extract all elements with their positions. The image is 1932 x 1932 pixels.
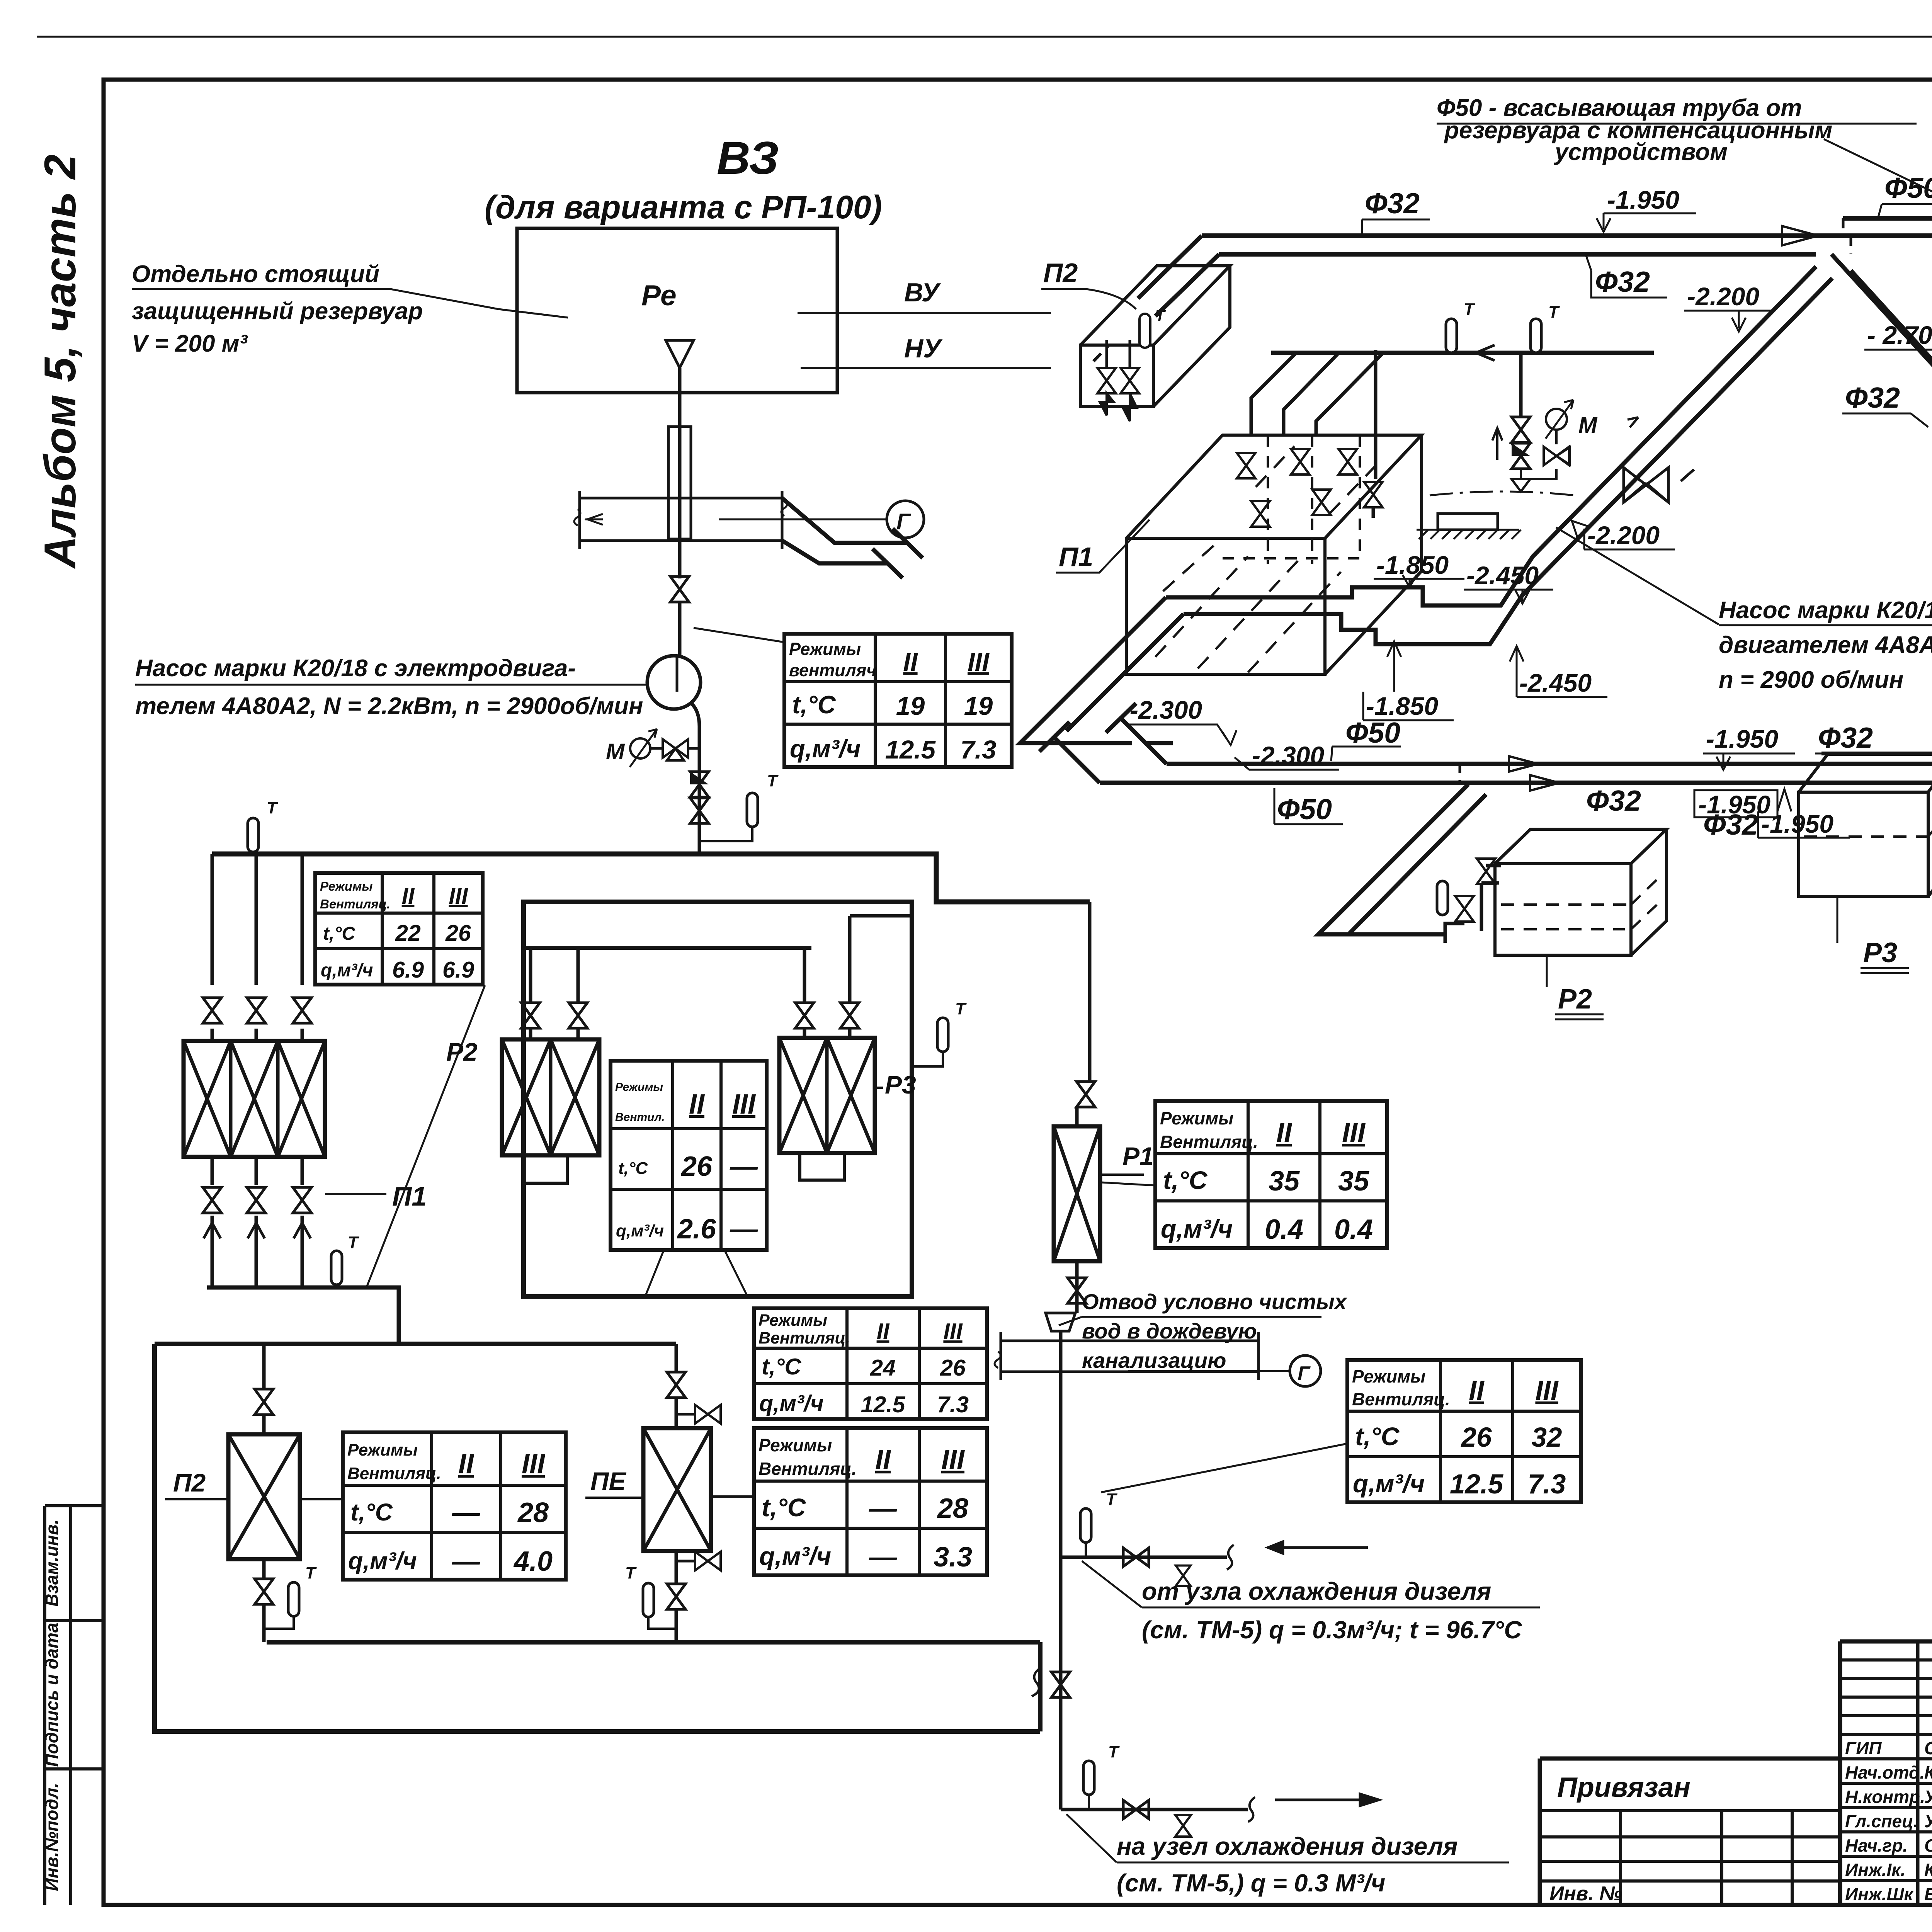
svg-text:—: — xyxy=(730,1151,758,1182)
line на узел охлаждения xyxy=(1061,1808,1248,1811)
Р2 risers xyxy=(531,948,578,1039)
svg-text:0.4: 0.4 xyxy=(1265,1214,1303,1245)
heat exchanger П2 приточный xyxy=(228,1434,300,1559)
svg-text:Насос марки К20/18 с электродв: Насос марки К20/18 с электродвига- xyxy=(135,655,576,682)
link ПЕ to table xyxy=(711,1495,754,1498)
svg-text:q,м³/ч: q,м³/ч xyxy=(1161,1214,1233,1243)
svg-text:t,°C: t,°C xyxy=(323,923,356,944)
flow arrow up xyxy=(1492,428,1502,460)
return run pipes xyxy=(1020,597,1184,743)
svg-text:19: 19 xyxy=(896,692,925,721)
П1 riser valves xyxy=(203,998,221,1023)
flow arrow out на узел xyxy=(1275,1794,1379,1806)
svg-text:Режимы: Режимы xyxy=(1160,1108,1233,1128)
fan circle Г2 xyxy=(1290,1355,1321,1386)
link П2 to table xyxy=(300,1498,343,1500)
table T1 режимы у насоса xyxy=(784,634,1012,767)
relief branch pipe xyxy=(1519,353,1523,417)
flow arrow into от узла xyxy=(1268,1542,1368,1553)
svg-text:Т: Т xyxy=(1108,1742,1120,1761)
svg-text:Р1: Р1 xyxy=(1122,1142,1154,1170)
svg-text:ГИП: ГИП xyxy=(1845,1738,1882,1758)
svg-text:Т: Т xyxy=(625,1563,637,1582)
svg-text:Режимы: Режимы xyxy=(759,1311,827,1330)
thermometer П2 xyxy=(288,1582,299,1616)
svg-text:защищенный резервуар: защищенный резервуар xyxy=(132,298,423,325)
label П2 xyxy=(165,1498,228,1500)
text от узла охлаждения xyxy=(1142,1577,1522,1644)
thermometer after pump xyxy=(747,793,758,827)
svg-text:двигателем 4А8А2 , N= 2.2 кВт: двигателем 4А8А2 , N= 2.2 кВт, xyxy=(1719,632,1932,658)
leader T5 xyxy=(1101,1444,1347,1492)
svg-text:t,°C: t,°C xyxy=(1355,1422,1400,1451)
svg-text:-1.850: -1.850 xyxy=(1376,551,1449,579)
break mark on return xyxy=(1032,1667,1042,1696)
svg-text:Т: Т xyxy=(267,798,278,817)
svg-text:28: 28 xyxy=(517,1497,549,1528)
Р3 feed header xyxy=(1821,753,1932,821)
pit block xyxy=(1438,514,1498,530)
svg-text:-1.950: -1.950 xyxy=(1698,790,1770,819)
svg-text:Ф32: Ф32 xyxy=(1586,784,1641,817)
svg-text:П2: П2 xyxy=(173,1468,206,1497)
leader T1 xyxy=(694,628,784,642)
lower run lower pipe xyxy=(1100,781,1932,785)
svg-text:Самитов: Самитов xyxy=(1924,1738,1932,1758)
note underline and leader xyxy=(132,289,568,318)
svg-text:II: II xyxy=(689,1089,705,1120)
svg-text:Инж.Iк.: Инж.Iк. xyxy=(1845,1860,1905,1880)
level line ВУ xyxy=(798,312,1051,314)
П1 lower valves xyxy=(203,1187,221,1213)
hatched ground xyxy=(1417,530,1521,539)
svg-text:t,°C: t,°C xyxy=(792,690,836,719)
small drain valve 2 xyxy=(1175,1815,1191,1837)
насос leader right xyxy=(1556,527,1719,624)
привязан grid xyxy=(1540,1811,1840,1905)
svg-text:III: III xyxy=(943,1319,963,1344)
svg-text:4.0: 4.0 xyxy=(513,1546,553,1577)
fan circle Г xyxy=(887,501,924,538)
svg-text:Ф32: Ф32 xyxy=(1365,187,1420,219)
svg-text:26: 26 xyxy=(1461,1422,1492,1453)
svg-text:Режимы: Режимы xyxy=(347,1440,418,1459)
svg-text:II: II xyxy=(875,1444,891,1475)
relief double valve xyxy=(1512,417,1530,442)
suction pipe down xyxy=(678,368,682,578)
valves Р2 branch xyxy=(1455,896,1474,922)
svg-text:ВЗ: ВЗ xyxy=(717,132,779,184)
svg-text:12.5: 12.5 xyxy=(861,1392,906,1417)
label Р3 xyxy=(875,1087,883,1089)
svg-text:Г: Г xyxy=(896,509,911,534)
П2 riser diagonals xyxy=(1138,236,1219,316)
svg-text:Привязан: Привязан xyxy=(1557,1772,1690,1803)
svg-text:—: — xyxy=(452,1546,480,1577)
svg-text:7.3: 7.3 xyxy=(960,735,996,764)
svg-text:III: III xyxy=(968,648,990,677)
svg-text:Нач.гр.: Нач.гр. xyxy=(1845,1835,1908,1855)
svg-text:t,°C: t,°C xyxy=(762,1354,802,1379)
svg-text:0.4: 0.4 xyxy=(1334,1214,1373,1245)
pump К20/18 xyxy=(647,656,701,709)
distribution header pipe xyxy=(212,854,1090,902)
manometer М2 xyxy=(1546,409,1567,430)
svg-text:II: II xyxy=(877,1319,890,1344)
svg-text:НУ: НУ xyxy=(904,334,943,363)
heat exchanger ПЕ нагреватель xyxy=(643,1428,711,1551)
svg-text:7.3: 7.3 xyxy=(1528,1469,1566,1500)
svg-text:Гл.спец.: Гл.спец. xyxy=(1845,1811,1918,1831)
table T7 режимы ПЕ xyxy=(754,1428,987,1575)
svg-text:Подпись и дата: Подпись и дата xyxy=(42,1623,62,1767)
Р2 branch dashed tie xyxy=(1459,764,1461,784)
svg-text:(для варианта с РП-100): (для варианта с РП-100) xyxy=(485,189,882,225)
svg-text:Усенков: Усенков xyxy=(1924,1811,1932,1831)
left stamp column boxes xyxy=(45,1506,104,1905)
П2 lower pipe xyxy=(262,1559,266,1642)
привязан block outline xyxy=(1540,1759,1840,1905)
section header ВЗ xyxy=(485,132,882,225)
air funnel xyxy=(666,340,694,368)
Р2 feed elbow xyxy=(1445,866,1501,943)
svg-text:26: 26 xyxy=(445,920,471,946)
pump note underline xyxy=(135,684,647,686)
svg-text:2.6: 2.6 xyxy=(677,1214,716,1245)
svg-text:Отдельно стоящий: Отдельно стоящий xyxy=(132,261,379,287)
svg-text:t,°C: t,°C xyxy=(350,1499,393,1526)
П2 box drain valves xyxy=(1097,368,1116,393)
heat exchanger Р2 xyxy=(502,1039,599,1155)
flow arrows on run xyxy=(1509,756,1559,791)
svg-text:-2.450: -2.450 xyxy=(1466,561,1539,590)
leader T4 xyxy=(1101,1182,1155,1185)
thermometer на узел xyxy=(1083,1761,1094,1795)
svg-text:II: II xyxy=(402,883,415,909)
note отдельно стоящий резервуар xyxy=(132,261,423,357)
svg-text:Вентиляц.: Вентиляц. xyxy=(347,1464,441,1483)
drain riser xyxy=(1061,1298,1077,1810)
manometer valve 2 xyxy=(1555,430,1558,444)
pipe Ф32 upper run xyxy=(1202,233,1932,238)
pump outlet pipe xyxy=(691,703,699,854)
flow arrow on upper run xyxy=(1782,226,1818,245)
dashed tie at junction xyxy=(1843,218,1851,254)
svg-text:Ф32: Ф32 xyxy=(1595,265,1650,298)
ground dash-dot xyxy=(1430,492,1574,495)
storm drain duct xyxy=(995,1332,1259,1380)
svg-text:q,м³/ч: q,м³/ч xyxy=(616,1221,664,1240)
svg-text:26: 26 xyxy=(940,1355,966,1381)
Р1 lower pipe xyxy=(1075,1261,1079,1312)
svg-text:22: 22 xyxy=(395,920,421,946)
svg-text:Т: Т xyxy=(1548,303,1560,321)
svg-text:ПЕ: ПЕ xyxy=(590,1467,626,1495)
line to fan Г xyxy=(719,519,887,520)
svg-text:6.9: 6.9 xyxy=(442,957,474,983)
svg-text:Ф50: Ф50 xyxy=(1277,793,1332,825)
svg-text:II: II xyxy=(903,648,918,677)
svg-text:II: II xyxy=(458,1449,474,1480)
svg-text:- 2.700: - 2.700 xyxy=(1867,321,1932,349)
signature table columns xyxy=(1918,1641,1932,1905)
svg-text:q,м³/ч: q,м³/ч xyxy=(759,1542,831,1570)
svg-text:Р3: Р3 xyxy=(885,1070,916,1099)
line от узла охлаждения xyxy=(1061,1556,1227,1559)
svg-text:—: — xyxy=(730,1214,758,1245)
note всасывающая труба xyxy=(1437,95,1832,165)
svg-text:26: 26 xyxy=(680,1151,713,1182)
relief outlet cone xyxy=(1512,469,1530,492)
Р2 branch diagonals xyxy=(1318,784,1486,934)
svg-text:—: — xyxy=(452,1497,480,1528)
svg-text:Инв. №: Инв. № xyxy=(1549,1883,1622,1905)
svg-text:q,м³/ч: q,м³/ч xyxy=(348,1548,417,1575)
recirculation box outline xyxy=(524,902,912,1296)
svg-text:Вентиляц.: Вентиляц. xyxy=(1160,1132,1258,1152)
svg-text:Режимы: Режимы xyxy=(1352,1366,1425,1386)
thermometer ПЕ xyxy=(643,1583,654,1617)
Р2 pedestal xyxy=(525,1155,567,1183)
lower loop pipe xyxy=(155,1344,1040,1731)
svg-text:12.5: 12.5 xyxy=(885,735,936,764)
left hook upper xyxy=(1106,703,1167,764)
svg-text:q,м³/ч: q,м³/ч xyxy=(321,960,373,981)
П2 box thermometer xyxy=(1139,314,1150,348)
svg-text:Режимы: Режимы xyxy=(789,639,861,659)
svg-text:Отвод условно чистых: Отвод условно чистых xyxy=(1082,1289,1348,1314)
П1 interior valves xyxy=(1237,453,1255,478)
Р3 isometric box xyxy=(1799,754,1932,896)
svg-text:вод в дождевую: вод в дождевую xyxy=(1082,1319,1257,1343)
svg-text:М: М xyxy=(606,739,625,764)
svg-text:-1.950: -1.950 xyxy=(1607,185,1679,214)
label ПЕ xyxy=(585,1497,643,1499)
pump note text xyxy=(135,655,643,719)
valve on suction xyxy=(670,577,689,602)
svg-text:Ф32: Ф32 xyxy=(1818,721,1873,754)
pipe Ф32 lower run xyxy=(1219,252,1816,257)
line to fan Г2 xyxy=(1128,1370,1291,1372)
svg-text:Т: Т xyxy=(348,1233,359,1252)
label Р1 xyxy=(1100,1173,1144,1176)
svg-text:Т: Т xyxy=(1106,1490,1117,1509)
svg-text:Вентиляц.: Вентиляц. xyxy=(759,1459,857,1479)
backflow symbol on diagonal xyxy=(1624,417,1694,502)
svg-text:-1.850: -1.850 xyxy=(1366,692,1438,720)
svg-text:Т: Т xyxy=(955,999,967,1018)
thermometer от узла xyxy=(1080,1509,1091,1543)
П1 risers xyxy=(212,854,302,1041)
svg-text:q,м³/ч: q,м³/ч xyxy=(790,735,861,763)
svg-text:П2: П2 xyxy=(1043,258,1078,288)
svg-text:III: III xyxy=(1342,1117,1366,1148)
svg-text:—: — xyxy=(869,1493,897,1524)
table T4 режимы Р1 xyxy=(1155,1101,1387,1248)
svg-text:Вентиляц.: Вентиляц. xyxy=(320,897,390,911)
svg-text:(см. ТМ-5) q = 0.3м³/ч; t =: (см. ТМ-5) q = 0.3м³/ч; t = 96.7°С xyxy=(1142,1616,1522,1644)
svg-text:на узел охлаждения дизеля: на узел охлаждения дизеля xyxy=(1117,1832,1458,1860)
svg-text:t,°C: t,°C xyxy=(618,1159,648,1178)
svg-text:35: 35 xyxy=(1269,1166,1300,1197)
svg-text:III: III xyxy=(1535,1376,1558,1406)
ПЕ lower pipe xyxy=(675,1551,678,1642)
П2 supply isometric box xyxy=(1080,266,1230,406)
check valve xyxy=(690,772,709,797)
heat exchanger Р3 xyxy=(779,1038,875,1153)
svg-text:Насос марки К20/18 с электро-: Насос марки К20/18 с электро- xyxy=(1719,597,1932,624)
thermometer Р2 branch xyxy=(1437,881,1448,915)
svg-text:Н.контр.: Н.контр. xyxy=(1845,1787,1925,1807)
thermometer on collector xyxy=(331,1251,342,1285)
svg-text:35: 35 xyxy=(1338,1166,1369,1197)
ПЕ bypass valve top xyxy=(676,1413,696,1416)
svg-text:Т: Т xyxy=(1464,300,1475,319)
svg-text:28: 28 xyxy=(937,1493,968,1524)
left hook lower xyxy=(1039,722,1100,783)
П1 isometric box xyxy=(1126,435,1422,674)
signature table rows xyxy=(1840,1660,1932,1881)
svg-text:устройством: устройством xyxy=(1554,139,1728,165)
duct to trench diagonal xyxy=(782,498,923,578)
svg-text:Инв.№подл.: Инв.№подл. xyxy=(42,1783,62,1891)
svg-text:II: II xyxy=(1469,1376,1485,1406)
svg-text:12.5: 12.5 xyxy=(1450,1469,1504,1500)
svg-text:Ре: Ре xyxy=(641,279,677,311)
svg-text:П1: П1 xyxy=(1059,542,1093,572)
svg-text:Р2: Р2 xyxy=(446,1037,478,1066)
svg-text:Альбом 5, часть 2: Альбом 5, часть 2 xyxy=(36,155,85,570)
svg-text:Нач.отд.: Нач.отд. xyxy=(1845,1762,1925,1782)
svg-text:II: II xyxy=(1276,1117,1293,1148)
trench pipe upper xyxy=(1166,267,1816,605)
svg-text:(см. ТМ-5,) q = 0.3 М³/ч: (см. ТМ-5,) q = 0.3 М³/ч xyxy=(1117,1869,1385,1897)
svg-text:6.9: 6.9 xyxy=(392,957,424,983)
thermometer on header 2 xyxy=(1531,319,1541,353)
table T3 режимы Р2Р3 xyxy=(611,1061,767,1250)
svg-text:III: III xyxy=(449,883,468,909)
svg-text:от узла охлаждения дизеля: от узла охлаждения дизеля xyxy=(1142,1577,1491,1605)
svg-text:3.3: 3.3 xyxy=(934,1542,972,1573)
Р3 risers xyxy=(804,916,912,1038)
svg-text:канализацию: канализацию xyxy=(1082,1348,1226,1372)
level line НУ xyxy=(801,367,1051,369)
Р3 pedestal xyxy=(800,1153,844,1180)
collector header xyxy=(1271,351,1654,355)
svg-text:32: 32 xyxy=(1532,1422,1562,1453)
svg-text:Кондакова: Кондакова xyxy=(1924,1860,1932,1880)
gate valve xyxy=(690,798,709,823)
text отвод условно чистых xyxy=(1082,1289,1348,1372)
exhaust arrows xyxy=(204,1223,311,1238)
leader T2 xyxy=(367,985,485,1286)
svg-text:Режимы: Режимы xyxy=(615,1081,663,1094)
svg-text:V = 200 м³: V = 200 м³ xyxy=(132,330,248,357)
table T2 режимы П1 xyxy=(315,873,483,985)
svg-text:-2.300: -2.300 xyxy=(1130,696,1202,724)
svg-text:Т: Т xyxy=(767,771,779,790)
svg-text:n = 2900 об/мин: n = 2900 об/мин xyxy=(1719,667,1903,693)
svg-text:Г: Г xyxy=(1298,1362,1311,1385)
svg-text:III: III xyxy=(522,1449,546,1480)
svg-text:Вентил.: Вентил. xyxy=(615,1111,665,1124)
svg-text:7.3: 7.3 xyxy=(937,1392,969,1417)
svg-text:-1.950: -1.950 xyxy=(1706,724,1778,753)
svg-text:Усенков: Усенков xyxy=(1924,1787,1932,1807)
svg-text:Взам.инв.: Взам.инв. xyxy=(42,1519,62,1607)
riser valve xyxy=(1051,1672,1070,1697)
Р1 riser xyxy=(1077,902,1090,1126)
svg-text:ВУ: ВУ xyxy=(904,278,941,307)
thermometer on header xyxy=(248,818,259,852)
table T8 режимы П2 xyxy=(343,1432,566,1580)
svg-text:вентиляч: вентиляч xyxy=(789,660,877,680)
pipe Ф50 upper run xyxy=(1843,216,1932,221)
svg-text:q,м³/ч: q,м³/ч xyxy=(759,1391,824,1416)
manometer М xyxy=(630,738,650,759)
svg-text:24: 24 xyxy=(870,1355,896,1381)
svg-text:Ф32: Ф32 xyxy=(1845,381,1900,414)
svg-text:-2.200: -2.200 xyxy=(1587,521,1660,549)
heat exchanger П1 xyxy=(184,1041,325,1157)
ПЕ branch diagonals xyxy=(1832,254,1932,430)
header arrow xyxy=(1476,345,1495,361)
table T6 режимы ПЕ верх xyxy=(754,1308,987,1419)
насос note right xyxy=(1719,597,1932,693)
lower run upper pipe xyxy=(1167,762,1932,766)
small drain valve xyxy=(1176,1566,1190,1586)
svg-text:t,°C: t,°C xyxy=(1163,1166,1208,1194)
svg-text:телем 4А80А2, N = 2.2кВт, n: телем 4А80А2, N = 2.2кВт, n = 2900об/мин xyxy=(135,693,643,719)
table T5 режимы Г xyxy=(1347,1360,1581,1502)
flow meter body xyxy=(668,427,691,539)
svg-text:Вентиляц.: Вентиляц. xyxy=(1352,1389,1450,1409)
П1 lower drops xyxy=(212,1157,302,1287)
leaders T3 xyxy=(646,1250,747,1295)
TITLEBLOCK xyxy=(1540,1641,1932,1905)
П2 riser xyxy=(262,1344,266,1434)
svg-text:Вентиляц.: Вентиляц. xyxy=(759,1329,850,1347)
manometer valve xyxy=(650,747,663,750)
heat exchanger Р1 xyxy=(1054,1126,1100,1261)
svg-text:Ф50: Ф50 xyxy=(1345,716,1400,749)
svg-text:М: М xyxy=(1578,413,1598,438)
label П1 xyxy=(325,1193,386,1195)
П1 riser staircase pipes xyxy=(1251,350,1383,518)
svg-text:-2.200: -2.200 xyxy=(1687,282,1759,311)
duct arrow xyxy=(585,514,603,525)
title block outline xyxy=(1840,1641,1932,1905)
svg-text:t,°C: t,°C xyxy=(762,1493,806,1522)
svg-text:Соболева: Соболева xyxy=(1924,1835,1932,1855)
reservoir Ре xyxy=(517,228,837,393)
Р2 isometric box xyxy=(1495,829,1667,955)
ПЕ riser xyxy=(675,1344,678,1428)
text на узел охлаждения xyxy=(1117,1832,1458,1897)
svg-text:Режимы: Режимы xyxy=(759,1435,832,1455)
svg-text:19: 19 xyxy=(964,692,993,721)
thermometer on header 1 xyxy=(1446,319,1457,353)
svg-text:q,м³/ч: q,м³/ч xyxy=(1353,1469,1425,1498)
drain funnel xyxy=(1046,1313,1075,1331)
svg-text:Р3: Р3 xyxy=(1863,937,1897,968)
svg-text:Болусова: Болусова xyxy=(1924,1884,1932,1904)
sub header inside xyxy=(524,946,811,950)
svg-text:—: — xyxy=(869,1542,897,1573)
svg-text:Р2: Р2 xyxy=(1558,984,1592,1015)
thermometer between Р2 Р3 xyxy=(937,1018,948,1052)
ПЕ bypass valve bottom xyxy=(676,1560,696,1563)
